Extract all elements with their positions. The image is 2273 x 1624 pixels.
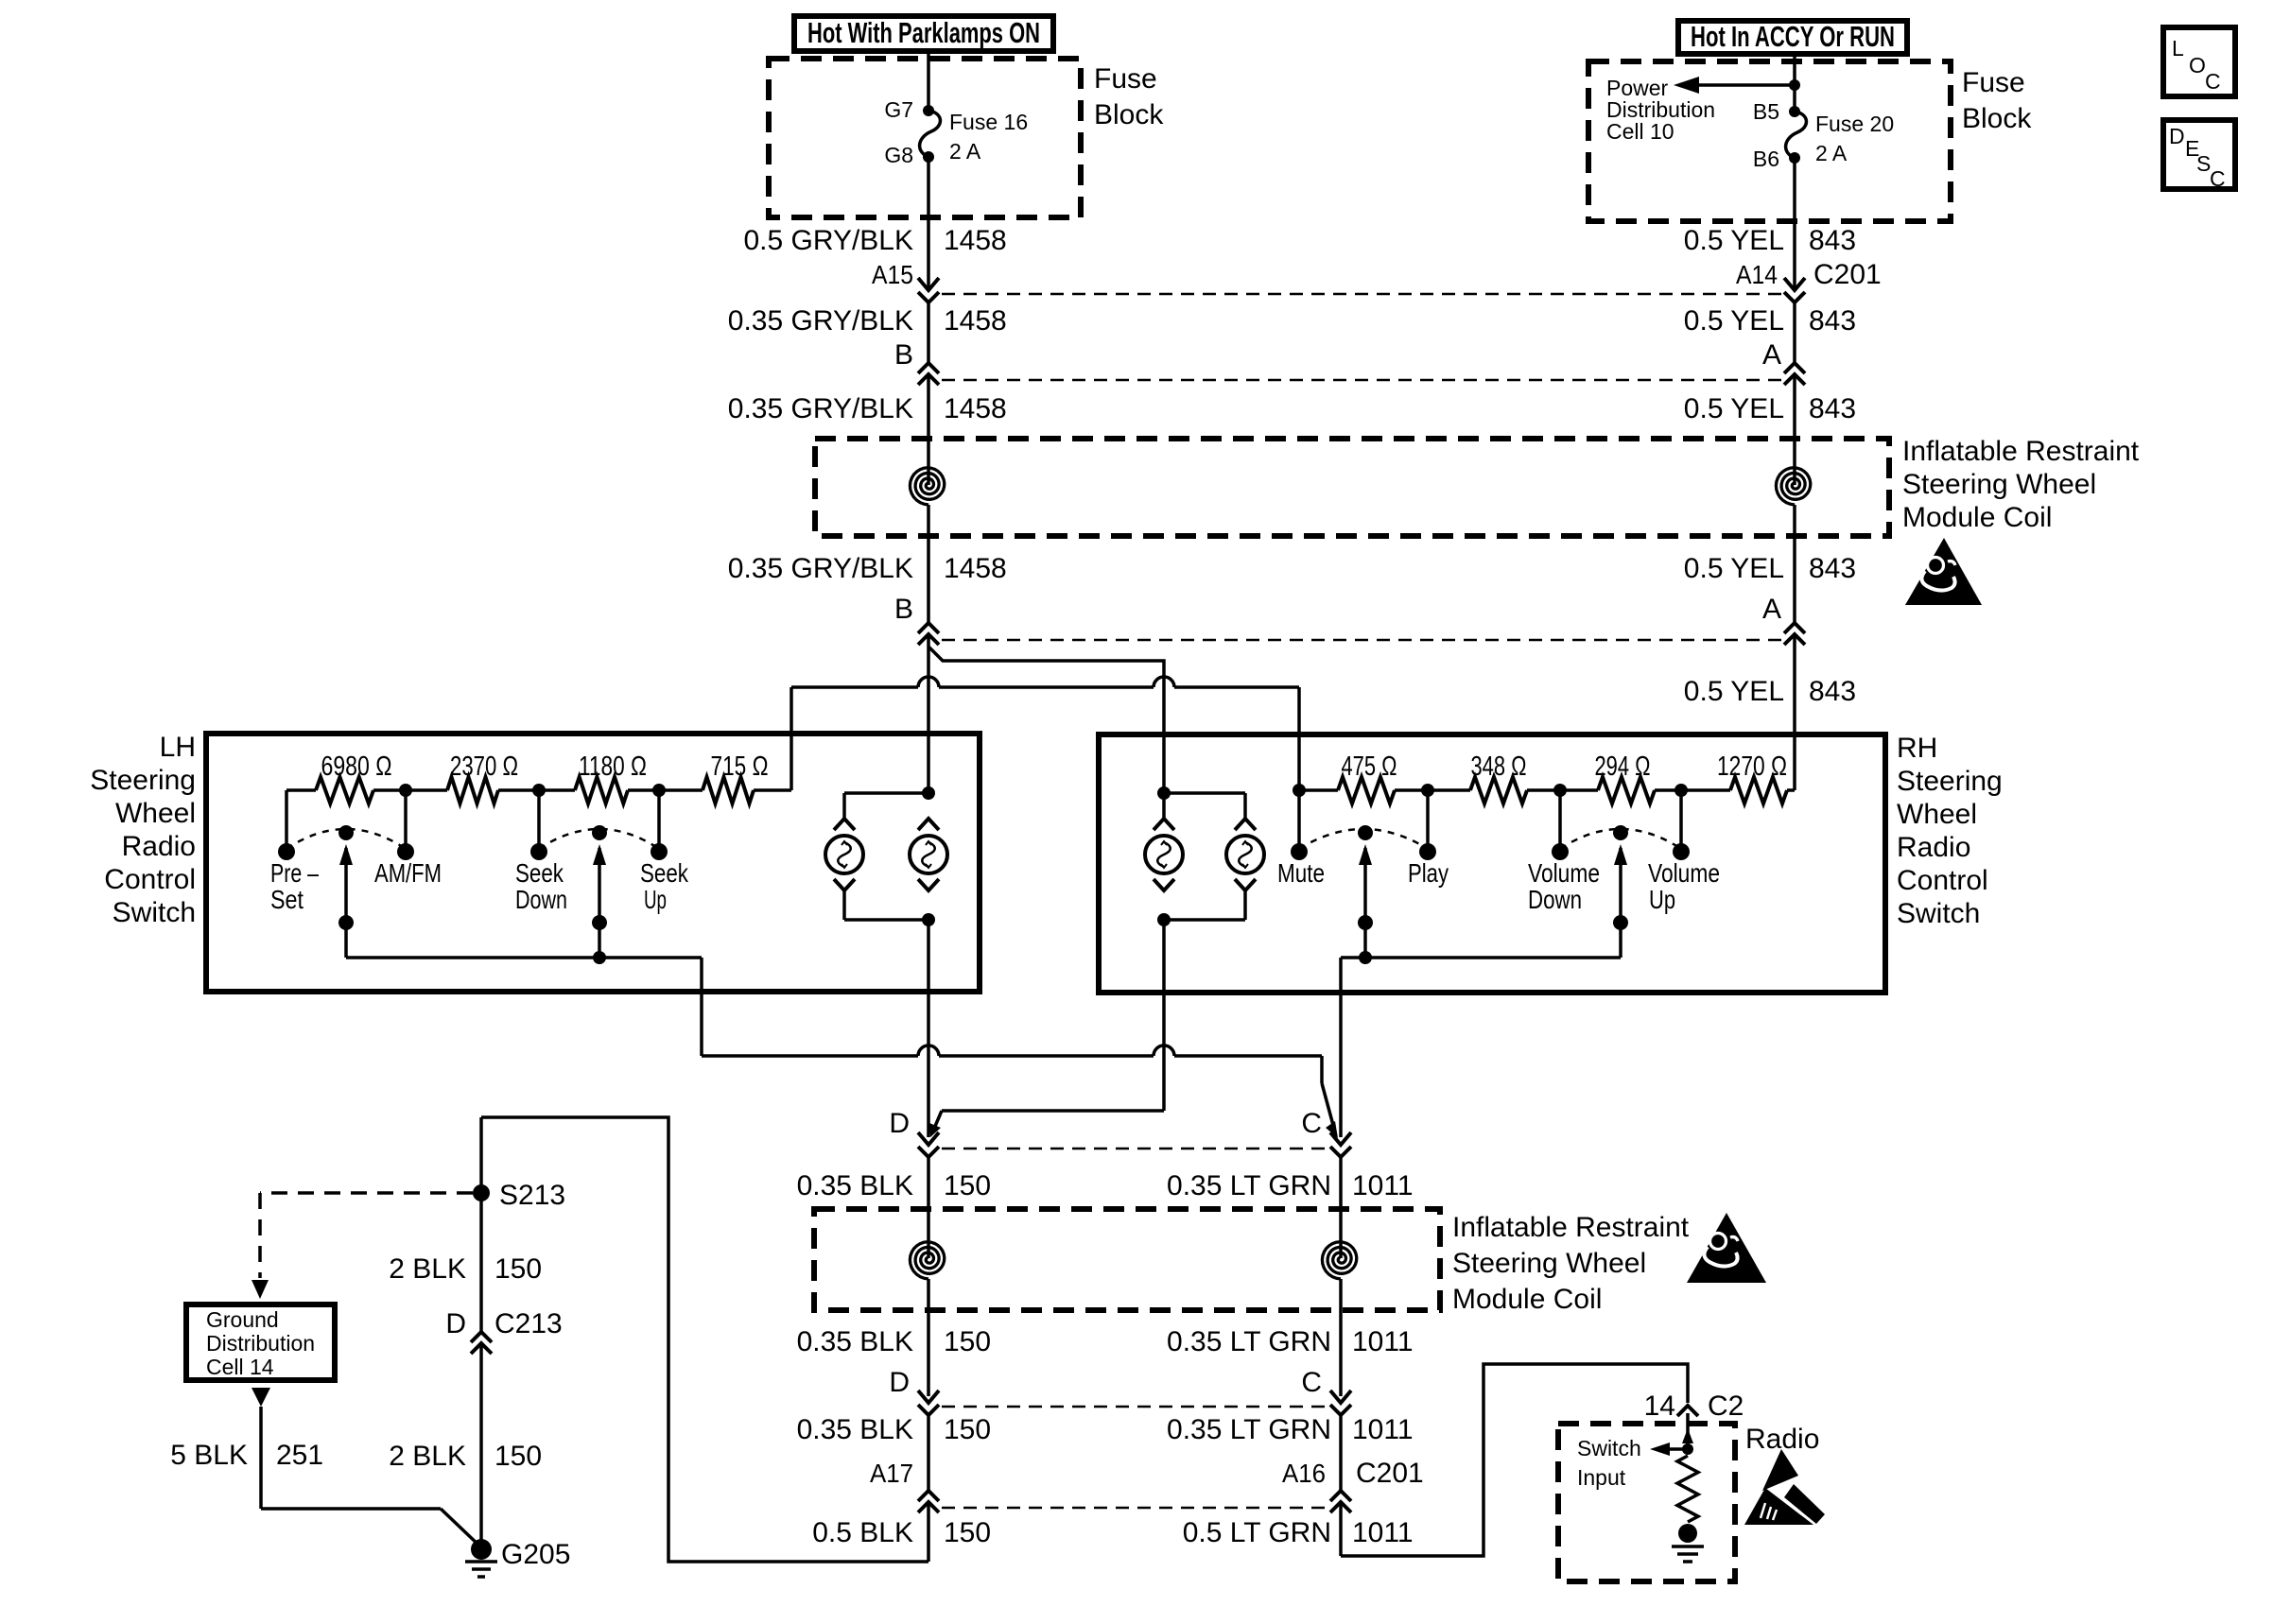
wire below connector row1 left [927, 302, 930, 363]
wire G8 to connector C201-A15 [927, 157, 930, 290]
svg-text:AM/FM: AM/FM [374, 858, 442, 888]
wire from label box to fuse block [927, 51, 930, 111]
svg-text:Cell 14: Cell 14 [206, 1355, 274, 1379]
svg-text:A16: A16 [1282, 1459, 1326, 1488]
wire below connector row1 right [1793, 302, 1796, 363]
svg-text:0.5 GRY/BLK: 0.5 GRY/BLK [743, 225, 913, 256]
Volume Up junction [1674, 784, 1688, 797]
wire 0.5 BLK to S213 [927, 1502, 930, 1562]
svg-text:C201: C201 [1356, 1458, 1424, 1489]
svg-text:L: L [2172, 36, 2184, 60]
radio dashed box [1558, 1424, 1735, 1581]
svg-text:Volume: Volume [1648, 858, 1720, 888]
svg-text:Steering: Steering [1897, 766, 2003, 797]
svg-text:Fuse: Fuse [1962, 67, 2025, 98]
svg-text:RH: RH [1897, 733, 1937, 764]
svg-text:Down: Down [515, 885, 567, 914]
wire row5 to row6 left [927, 1415, 930, 1491]
svg-text:B6: B6 [1753, 147, 1779, 171]
svg-text:LH: LH [160, 732, 196, 763]
svg-text:B: B [894, 594, 913, 625]
fuse block (left) dashed box [769, 59, 1081, 217]
switch arm Mute/Play [1363, 848, 1367, 958]
node G7 [923, 105, 934, 116]
svg-text:Pre –: Pre – [270, 858, 319, 888]
svg-text:251: 251 [276, 1440, 323, 1471]
RH lamp feed junction [1157, 786, 1171, 800]
branch wire B to RH lamps [928, 647, 1164, 793]
inflatable restraint coil dashed box (upper) [815, 439, 1889, 536]
wire coil box2 down right [1339, 1310, 1343, 1396]
svg-text:348 Ω: 348 Ω [1471, 752, 1527, 782]
inflatable restraint coil dashed box (lower) [814, 1209, 1440, 1310]
svg-text:D: D [889, 1367, 910, 1398]
wire B6 to connector C201-A14 [1793, 158, 1796, 290]
in-line connector C201 row 1 [942, 293, 1781, 296]
svg-text:Wheel: Wheel [1897, 799, 1977, 830]
switch input arrow up [1682, 1428, 1693, 1443]
in-line connector row 5 D/C [942, 1406, 1327, 1408]
svg-text:0.35 GRY/BLK: 0.35 GRY/BLK [728, 305, 913, 337]
svg-text:Up: Up [644, 885, 667, 914]
RH switch common wire [1341, 956, 1621, 959]
Play junction [1421, 784, 1434, 797]
svg-text:Input: Input [1577, 1465, 1626, 1490]
svg-text:Volume: Volume [1528, 858, 1600, 888]
svg-text:Inflatable Restraint: Inflatable Restraint [1452, 1212, 1690, 1243]
switch arc Pre-Set/AM-FM [286, 829, 406, 849]
switch arc Mute/Play [1299, 829, 1428, 849]
svg-text:1011: 1011 [1352, 1414, 1414, 1445]
svg-text:150: 150 [944, 1170, 991, 1201]
Mute junction [1293, 784, 1306, 797]
airbag warning triangle (lower) [1687, 1213, 1766, 1283]
svg-text:0.35 BLK: 0.35 BLK [797, 1326, 913, 1357]
RH lamp 1 [1154, 819, 1174, 830]
svg-text:Control: Control [1897, 865, 1988, 896]
svg-text:843: 843 [1809, 225, 1856, 256]
power label box: Hot In ACCY Or RUN [1678, 21, 1907, 54]
svg-text:Mute: Mute [1277, 858, 1325, 888]
ground distribution cell 14 box [186, 1304, 335, 1380]
svg-text:C: C [1301, 1108, 1322, 1139]
ESD sensitive icon [1762, 1449, 1798, 1491]
wire row2 to coil box right [1793, 374, 1796, 485]
svg-text:Up: Up [1649, 885, 1675, 914]
svg-text:Fuse: Fuse [1094, 63, 1157, 95]
svg-text:A17: A17 [870, 1459, 913, 1488]
LH lamp return [842, 890, 846, 920]
svg-text:Block: Block [1962, 103, 2032, 134]
coil symbol right (upper) [1776, 468, 1810, 505]
svg-text:A14: A14 [1736, 260, 1778, 289]
wire C213 to G205 [479, 1343, 483, 1547]
svg-text:5 BLK: 5 BLK [170, 1440, 248, 1471]
svg-text:843: 843 [1809, 393, 1856, 424]
fuse block (right) dashed box [1588, 61, 1951, 221]
in-line connector row 6 A17/A16 C201 [942, 1507, 1327, 1510]
svg-text:1458: 1458 [944, 553, 1007, 584]
svg-text:Block: Block [1094, 99, 1164, 130]
switch arm Pre-Set/AM-FM [344, 848, 348, 958]
svg-text:G205: G205 [501, 1539, 570, 1570]
DESC legend box [2163, 120, 2235, 189]
svg-text:C2: C2 [1708, 1391, 1744, 1422]
svg-text:14: 14 [1644, 1391, 1675, 1422]
RH lamp return wire to D [1162, 920, 1166, 1111]
svg-text:1011: 1011 [1352, 1517, 1414, 1548]
RH steering wheel radio control switch box [1099, 734, 1885, 993]
svg-text:Set: Set [270, 885, 304, 914]
svg-text:0.5 YEL: 0.5 YEL [1684, 305, 1784, 337]
svg-text:2 A: 2 A [1815, 141, 1848, 165]
fuse F16 element [920, 111, 941, 157]
svg-text:843: 843 [1809, 553, 1856, 584]
wire row4 to coil box2 right [1339, 1157, 1343, 1258]
terminal Seek Up [651, 843, 668, 860]
svg-text:Switch: Switch [113, 897, 196, 928]
svg-text:Radio: Radio [1745, 1424, 1819, 1455]
LH lamp 2 [918, 819, 939, 830]
svg-text:C213: C213 [495, 1308, 563, 1339]
svg-text:Steering Wheel: Steering Wheel [1452, 1248, 1646, 1279]
svg-text:C: C [2205, 69, 2221, 94]
svg-text:Distribution: Distribution [206, 1331, 315, 1356]
svg-text:Down: Down [1528, 885, 1582, 914]
svg-text:A: A [1762, 339, 1781, 371]
LH lamp feed junction [922, 786, 935, 800]
seek up junction leg [657, 790, 661, 852]
svg-text:Cell 10: Cell 10 [1606, 119, 1674, 144]
wire B down into LH switch box [927, 634, 930, 793]
terminal Volume Down [1552, 843, 1569, 860]
terminal AM/FM [397, 843, 414, 860]
svg-text:715 Ω: 715 Ω [711, 752, 769, 782]
svg-text:G8: G8 [884, 143, 913, 167]
LH steering wheel radio control switch box [206, 734, 980, 992]
RH lamp 2 [1235, 819, 1256, 830]
svg-text:0.5 YEL: 0.5 YEL [1684, 393, 1784, 424]
svg-text:0.35 BLK: 0.35 BLK [797, 1414, 913, 1445]
wire A down to RH resistor chain [1793, 634, 1796, 790]
connector C2 chevron [1677, 1406, 1698, 1416]
svg-text:Module Coil: Module Coil [1452, 1284, 1602, 1315]
wire 5 BLK 251 [259, 1407, 263, 1509]
svg-text:O: O [2189, 53, 2206, 78]
svg-text:150: 150 [944, 1517, 991, 1548]
svg-text:C: C [1301, 1367, 1322, 1398]
svg-text:0.35 LT GRN: 0.35 LT GRN [1167, 1326, 1331, 1357]
LH chain left leg [286, 788, 316, 792]
svg-text:Seek: Seek [515, 858, 564, 888]
svg-text:Radio: Radio [1897, 832, 1970, 863]
svg-text:1011: 1011 [1352, 1170, 1414, 1201]
radio internal resistor [1677, 1456, 1698, 1522]
wire coil box1 to connector row3 left [927, 536, 930, 622]
dashed branch to ground distribution [260, 1191, 473, 1195]
resistor 1270 ohm [1681, 788, 1730, 792]
svg-text:A15: A15 [872, 260, 913, 289]
wire row5 to row6 right [1339, 1415, 1343, 1491]
node G8 [923, 151, 934, 163]
svg-text:150: 150 [495, 1253, 542, 1285]
svg-text:Fuse 20: Fuse 20 [1815, 112, 1894, 136]
coil symbol right (lower) [1322, 1242, 1356, 1279]
svg-text:Module Coil: Module Coil [1902, 502, 2052, 533]
svg-text:Hot In ACCY Or RUN: Hot In ACCY Or RUN [1691, 20, 1895, 53]
wire S213 branch down [479, 1117, 483, 1333]
svg-text:B: B [894, 339, 913, 371]
svg-text:0.5 YEL: 0.5 YEL [1684, 553, 1784, 584]
svg-text:Radio: Radio [122, 831, 196, 862]
resistor 6980 ohm [316, 777, 373, 803]
svg-text:475 Ω: 475 Ω [1342, 752, 1397, 782]
wire 6980 to AMFM junction [373, 788, 447, 792]
wire 715 to chain exit [754, 788, 791, 792]
svg-text:D: D [445, 1308, 466, 1339]
svg-text:6980 Ω: 6980 Ω [321, 752, 392, 782]
resistor 2370 ohm [447, 777, 498, 803]
svg-text:0.5 YEL: 0.5 YEL [1684, 225, 1784, 256]
svg-text:Switch: Switch [1577, 1436, 1641, 1460]
svg-text:1458: 1458 [944, 225, 1007, 256]
svg-text:B5: B5 [1753, 99, 1779, 124]
ground G205 [471, 1539, 492, 1560]
terminal Mute [1291, 843, 1308, 860]
svg-text:1180 Ω: 1180 Ω [579, 752, 647, 782]
resistor 294 ohm [1560, 788, 1598, 792]
wire row4 to coil box2 left [927, 1157, 930, 1258]
seek down junction leg [537, 790, 541, 852]
switch input node [1682, 1443, 1693, 1455]
svg-text:2 BLK: 2 BLK [389, 1441, 466, 1472]
LH common wire to C [702, 1054, 918, 1058]
wire coil box2 down left [927, 1310, 930, 1396]
wire 2370 to seekdown junction [498, 788, 575, 792]
switch arm Seek [598, 848, 601, 958]
svg-text:294 Ω: 294 Ω [1595, 752, 1651, 782]
svg-text:0.35 BLK: 0.35 BLK [797, 1170, 913, 1201]
svg-text:Hot With Parklamps ON: Hot With Parklamps ON [807, 16, 1040, 49]
terminal Pre-Set [278, 843, 295, 860]
svg-text:0.35 GRY/BLK: 0.35 GRY/BLK [728, 393, 913, 424]
power label box: Hot With Parklamps ON [794, 16, 1053, 51]
svg-text:0.35 LT GRN: 0.35 LT GRN [1167, 1170, 1331, 1201]
svg-text:843: 843 [1809, 305, 1856, 337]
terminal Seek Down [530, 843, 547, 860]
fuse F20 element [1786, 112, 1807, 158]
svg-text:D: D [2169, 124, 2185, 148]
RH lamp return [1243, 890, 1247, 920]
in-line connector C213 [471, 1332, 492, 1342]
svg-text:A: A [1762, 594, 1781, 625]
arrow below ground distribution box [252, 1388, 270, 1407]
svg-text:2 A: 2 A [949, 139, 981, 164]
node B6 [1789, 152, 1800, 164]
LH lamp return wire down to D [927, 920, 930, 1137]
svg-text:Play: Play [1408, 858, 1449, 888]
svg-text:150: 150 [495, 1441, 542, 1472]
svg-text:150: 150 [944, 1326, 991, 1357]
svg-text:Wheel: Wheel [115, 798, 196, 829]
wire C2 into radio [1686, 1413, 1690, 1433]
svg-text:0.35 LT GRN: 0.35 LT GRN [1167, 1414, 1331, 1445]
resistor 348 ohm [1428, 788, 1470, 792]
svg-text:C201: C201 [1813, 259, 1882, 290]
in-line connector row 2 [942, 379, 1781, 382]
node B5 [1789, 106, 1800, 117]
switch arc Volume [1560, 829, 1681, 849]
svg-text:Control: Control [104, 864, 196, 895]
resistor 715 ohm [703, 777, 754, 803]
wire row2 to coil box left [927, 374, 930, 485]
power distribution arrow [1685, 83, 1795, 87]
coil symbol left (lower) [910, 1242, 944, 1279]
wire 1180 to seekup junction [628, 788, 703, 792]
svg-text:1270 Ω: 1270 Ω [1717, 752, 1787, 782]
resistor 1180 ohm [575, 777, 628, 803]
svg-text:1011: 1011 [1352, 1326, 1414, 1357]
LOC legend box [2163, 27, 2235, 96]
svg-text:Ground: Ground [206, 1307, 279, 1332]
svg-text:0.5 LT GRN: 0.5 LT GRN [1183, 1517, 1331, 1548]
LH lamp 1 [834, 819, 855, 830]
in-line connector row 3 [942, 639, 1781, 642]
terminal Volume Up [1673, 843, 1690, 860]
svg-text:D: D [889, 1108, 910, 1139]
svg-text:C: C [2210, 166, 2226, 191]
AM/FM junction leg [404, 790, 408, 852]
svg-text:1458: 1458 [944, 305, 1007, 337]
svg-text:150: 150 [944, 1414, 991, 1445]
svg-text:2370 Ω: 2370 Ω [450, 752, 518, 782]
Volume Down junction [1553, 784, 1567, 797]
svg-text:Steering Wheel: Steering Wheel [1902, 469, 2096, 500]
in-line connector row 4 D/C [942, 1148, 1327, 1150]
svg-text:2 BLK: 2 BLK [389, 1253, 466, 1285]
svg-text:0.5 YEL: 0.5 YEL [1684, 676, 1784, 707]
svg-text:Fuse 16: Fuse 16 [949, 110, 1028, 134]
svg-text:G7: G7 [884, 97, 913, 122]
terminal Play [1419, 843, 1436, 860]
switch arm Volume [1619, 848, 1622, 958]
wire from ACCY box to fuse block [1793, 54, 1796, 112]
resistor 475 ohm [1299, 788, 1338, 792]
radio internal ground [1678, 1524, 1697, 1543]
svg-text:843: 843 [1809, 676, 1856, 707]
svg-text:Steering: Steering [90, 765, 196, 796]
svg-text:Seek: Seek [640, 858, 689, 888]
svg-text:0.35 GRY/BLK: 0.35 GRY/BLK [728, 553, 913, 584]
switch input arrow left [1667, 1447, 1688, 1451]
svg-text:Switch: Switch [1897, 898, 1980, 929]
svg-text:Inflatable Restraint: Inflatable Restraint [1902, 436, 2140, 467]
airbag warning triangle (upper) [1905, 538, 1982, 605]
resistor chain link line B [791, 685, 918, 689]
svg-text:0.5 BLK: 0.5 BLK [812, 1517, 913, 1548]
coil symbol left (upper) [910, 468, 944, 505]
switch arc Seek [539, 829, 659, 849]
wire coil box1 to connector row3 right [1793, 536, 1796, 622]
svg-text:S213: S213 [499, 1180, 565, 1211]
splice S213 [473, 1184, 490, 1201]
svg-text:1458: 1458 [944, 393, 1007, 424]
LH switch common wire [346, 956, 702, 959]
wire LT GRN to radio [1339, 1502, 1343, 1556]
